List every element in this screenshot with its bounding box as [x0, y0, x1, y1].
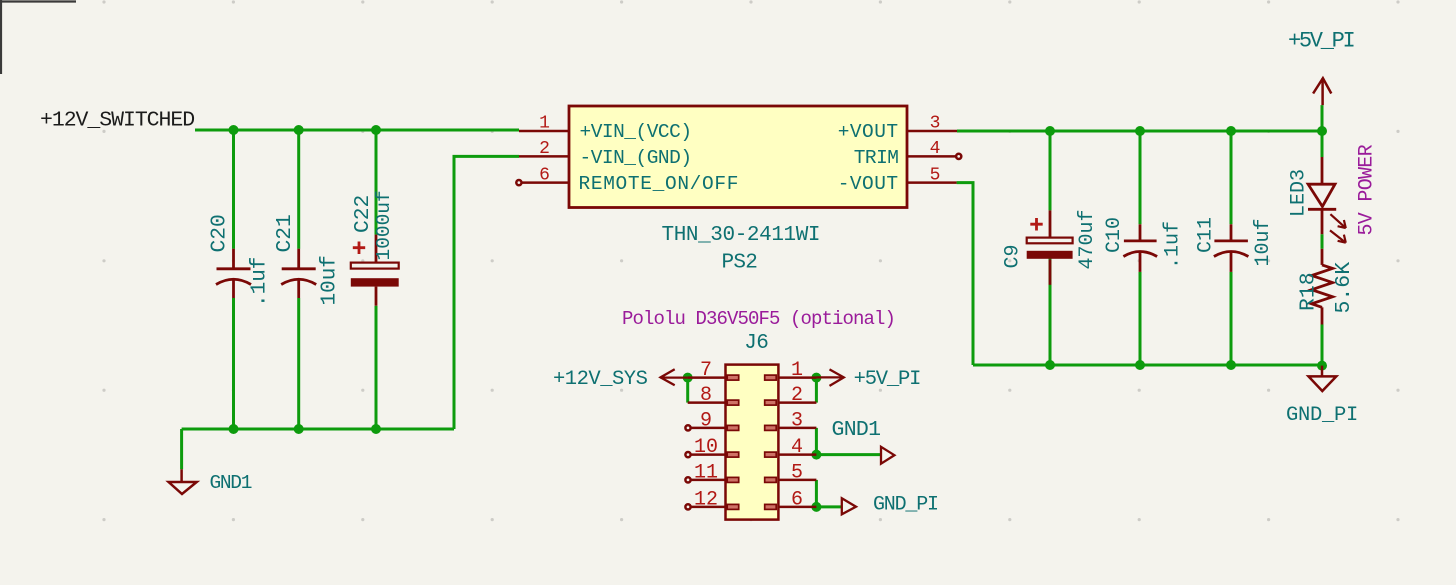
svg-text:TRIM: TRIM [854, 147, 899, 169]
svg-text:.1uf: .1uf [249, 257, 272, 307]
svg-text:11: 11 [694, 462, 718, 485]
svg-text:6: 6 [791, 489, 803, 512]
svg-text:GND1: GND1 [832, 418, 881, 442]
svg-text:5: 5 [791, 462, 803, 485]
svg-text:12: 12 [694, 489, 718, 512]
svg-text:+VOUT: +VOUT [838, 121, 899, 143]
svg-text:J6: J6 [744, 332, 768, 355]
svg-text:1: 1 [539, 114, 550, 134]
svg-text:LED3: LED3 [1288, 169, 1311, 217]
svg-text:5.6K: 5.6K [1332, 262, 1356, 314]
svg-text:+VIN_(VCC): +VIN_(VCC) [580, 121, 692, 143]
svg-text:1000uf: 1000uf [373, 190, 395, 260]
svg-text:C21: C21 [273, 214, 297, 252]
svg-text:10uf: 10uf [319, 255, 342, 305]
svg-text:470uf: 470uf [1076, 209, 1099, 269]
svg-text:2: 2 [539, 139, 550, 159]
svg-text:C20: C20 [208, 214, 232, 252]
svg-text:C10: C10 [1103, 217, 1126, 253]
svg-text:GND1: GND1 [210, 472, 252, 494]
svg-text:-VIN_(GND): -VIN_(GND) [580, 147, 692, 169]
svg-text:+5V_PI: +5V_PI [854, 368, 921, 391]
svg-text:2: 2 [791, 384, 803, 407]
svg-text:8: 8 [700, 384, 712, 407]
svg-text:10: 10 [694, 436, 718, 459]
svg-text:Pololu D36V50F5 (optional): Pololu D36V50F5 (optional) [622, 308, 895, 330]
svg-text:C11: C11 [1195, 217, 1218, 253]
svg-text:4: 4 [791, 436, 803, 459]
svg-text:4: 4 [930, 139, 941, 159]
svg-text:7: 7 [700, 359, 712, 382]
svg-text:+12V_SWITCHED: +12V_SWITCHED [40, 109, 194, 133]
svg-text:3: 3 [930, 114, 941, 134]
svg-text:6: 6 [539, 166, 550, 186]
svg-text:THN_30-2411WI: THN_30-2411WI [662, 224, 821, 247]
svg-text:3: 3 [791, 410, 803, 433]
svg-text:GND_PI: GND_PI [873, 494, 938, 517]
svg-text:REMOTE_ON/OFF: REMOTE_ON/OFF [579, 173, 740, 195]
svg-text:-VOUT: -VOUT [838, 173, 899, 195]
svg-text:10uf: 10uf [1252, 218, 1275, 266]
svg-text:C9: C9 [1002, 244, 1025, 268]
svg-text:5: 5 [930, 166, 941, 186]
svg-text:9: 9 [700, 410, 712, 433]
svg-text:1: 1 [791, 359, 803, 382]
svg-text:PS2: PS2 [722, 252, 758, 275]
svg-text:R18: R18 [1297, 272, 1321, 311]
svg-text:C22: C22 [351, 195, 375, 233]
svg-text:GND_PI: GND_PI [1286, 404, 1358, 427]
svg-text:+12V_SYS: +12V_SYS [553, 368, 648, 391]
svg-text:.1uf: .1uf [1162, 221, 1185, 269]
svg-text:+5V_PI: +5V_PI [1288, 29, 1355, 54]
svg-text:5V POWER: 5V POWER [1356, 144, 1379, 235]
